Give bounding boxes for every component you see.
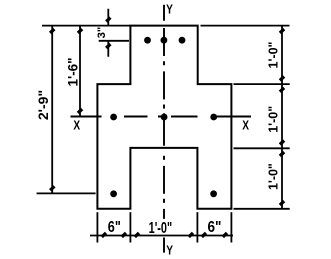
extension line bottom-bolt level xyxy=(37,192,96,194)
extension line bottom at x=197.4 xyxy=(196,212,198,242)
dimension right line xyxy=(281,26,283,209)
anchor bolt top-left xyxy=(144,37,151,44)
extension line right at band bottom xyxy=(234,147,290,149)
svg-text:Y: Y xyxy=(166,244,173,258)
dimension 2'-9" line xyxy=(51,26,53,194)
svg-text:1'-0": 1'-0" xyxy=(265,106,280,133)
svg-text:1'-0": 1'-0" xyxy=(265,163,280,190)
svg-text:2'-9": 2'-9" xyxy=(35,90,51,120)
svg-text:1'-0": 1'-0" xyxy=(265,42,280,69)
svg-text:1'-0": 1'-0" xyxy=(149,219,173,237)
extension line right at band top xyxy=(234,83,290,85)
dimension 3" line xyxy=(107,9,109,57)
anchor bolt top-center xyxy=(161,37,168,44)
svg-text:Y: Y xyxy=(166,3,173,17)
extension line right at foot bottom xyxy=(234,208,290,210)
centerline Y xyxy=(163,5,165,253)
dimension bottom line xyxy=(90,235,233,237)
pier outline xyxy=(97,26,231,209)
svg-text:1'-6": 1'-6" xyxy=(65,58,80,87)
anchor bolt mid-left xyxy=(110,114,117,121)
anchor bolt bottom-right xyxy=(210,190,217,197)
extension line top xyxy=(42,25,290,27)
extension line bottom at x=97.5 xyxy=(96,212,98,242)
extension line bottom at x=231 xyxy=(230,212,232,242)
anchor bolt bottom-left xyxy=(110,190,117,197)
svg-text:3": 3" xyxy=(96,27,108,39)
anchor bolt top-right xyxy=(179,37,186,44)
svg-text:6": 6" xyxy=(208,219,222,236)
svg-text:X: X xyxy=(242,118,249,132)
svg-text:X: X xyxy=(73,118,80,132)
extension line bottom at x=130.5 xyxy=(129,212,131,242)
centerline X xyxy=(71,116,252,118)
extension line top-bolt level xyxy=(99,40,129,42)
svg-text:6": 6" xyxy=(108,219,121,237)
anchor bolt center xyxy=(161,114,168,121)
anchor bolt mid-right xyxy=(210,114,217,121)
dimension 1'-6" line xyxy=(79,26,81,117)
